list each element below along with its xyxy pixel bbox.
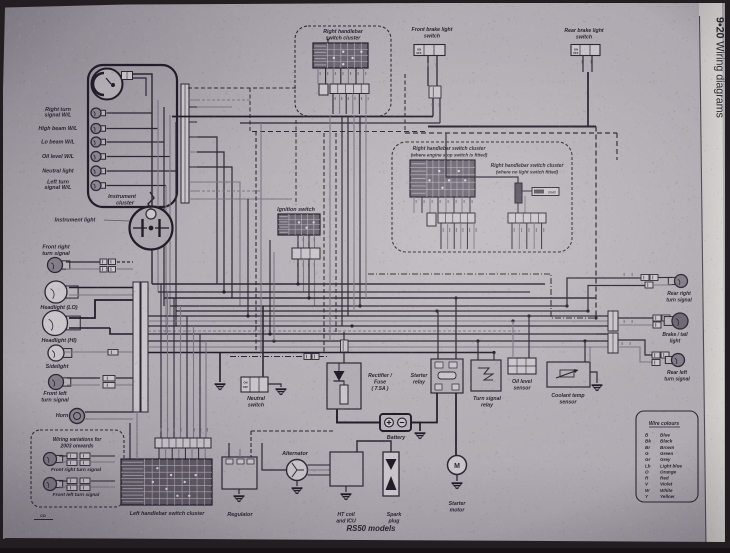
coolant sensor wires: [584, 341, 586, 362]
starter motor: [448, 456, 467, 475]
horn: [70, 409, 85, 424]
cluster stubs below connector: [332, 94, 334, 115]
alternator wires: [308, 464, 331, 466]
wire sidelight: [65, 351, 133, 353]
cluster connector: [319, 84, 328, 95]
rear brake switch wires: [582, 56, 584, 73]
spark plug: [383, 452, 399, 496]
wire - top bus to front brake switch: [172, 116, 433, 118]
dashed drop below cluster box: [295, 120, 297, 205]
neutral switch: [241, 377, 268, 392]
turn signal relay wires: [477, 341, 479, 360]
oil level sensor wires: [512, 321, 514, 358]
variations: front right turn signal bulb: [56, 455, 63, 462]
wire code ticks - rear brake: [582, 60, 583, 64]
left cluster stubs: [158, 448, 160, 459]
starter relay wires: [437, 311, 439, 359]
wire - dashed bus upper: [188, 87, 296, 89]
instrument light circle: [130, 207, 173, 250]
alternator ground: [296, 481, 298, 487]
warning light bulb: Left turn signal W/L: [100, 183, 106, 189]
battery ground: [415, 432, 426, 434]
wire - rear brake down the frame: [616, 133, 618, 160]
connector bar (upper): [181, 84, 189, 203]
ignition switch stubs: [297, 235, 299, 248]
page header text: 9-20 Wiring diagrams: [714, 17, 726, 118]
rectifier / fuse: [327, 363, 361, 409]
front brake switch wires: [427, 56, 429, 87]
lighting patches: [240, 30, 730, 410]
instrument light internal symbol: [141, 219, 143, 237]
wire horn: [85, 411, 133, 413]
wire headlight LO: [69, 287, 133, 289]
warning light bulb: Right turn signal W/L: [100, 110, 106, 116]
turn signal relay: [471, 360, 501, 391]
main harness horizontal rows: [152, 283, 545, 285]
HT coil and ICU: [330, 452, 363, 486]
variant B connector: [508, 213, 546, 223]
variant A stubs: [413, 197, 415, 213]
starter motor ground: [456, 475, 458, 482]
connector on harness feed: [304, 354, 311, 360]
battery wires: [337, 409, 380, 423]
wire HT coil to spark plug: [357, 441, 391, 452]
wire colours box: [636, 411, 698, 502]
wire code ticks - top cluster: [335, 97, 336, 100]
variant cluster B switch: [515, 183, 522, 203]
regulator wires: [228, 443, 230, 457]
dashed drop from top bus: [249, 88, 251, 131]
oil level sensor: [508, 358, 536, 374]
regulator ground: [238, 489, 240, 494]
wire code ticks - rear lamps: [624, 273, 625, 276]
ignition connector: [292, 248, 320, 259]
rear left turn signal: [618, 340, 652, 355]
ignition stubs below: [297, 259, 299, 284]
page margin rule line: [700, 16, 707, 548]
wire headlight HI: [69, 300, 133, 318]
warning light bulb: Lo beam W/L: [100, 139, 106, 145]
wiring variations box: [31, 430, 124, 507]
right handlebar switch cluster box (dashed): [295, 26, 391, 116]
heavy feed wire: [262, 306, 264, 379]
wire bundle - warning lights to harness: [107, 112, 153, 114]
wire starter relay to starter motor: [455, 393, 457, 455]
instrument cluster outline: [88, 65, 177, 207]
wire code ticks - front brake: [428, 63, 429, 67]
wire stubs right of connector bar: [189, 99, 197, 101]
wire code ticks - ignition: [297, 238, 298, 242]
wire neutral to ground: [219, 353, 221, 383]
variant B stubs below: [511, 223, 513, 249]
vertical bundle below top cluster: [323, 133, 325, 353]
left cluster side wires: [129, 423, 131, 459]
harness steps center-left: [247, 199, 249, 316]
coolant temp sensor: [547, 362, 590, 387]
wire code ticks - left cluster bundle: [161, 428, 162, 432]
headlight (HI) bulb: [67, 316, 81, 330]
battery: [380, 414, 411, 431]
rear harness connector blocks: [608, 311, 618, 331]
wire front left turn signal: [67, 377, 100, 379]
wire + connectors front right turn signal: [66, 261, 100, 263]
wire to rear right turn signal: [567, 278, 641, 306]
left handlebar switch cluster table: [121, 459, 212, 505]
connector bar (lower): [133, 282, 140, 412]
variant A connector: [427, 213, 436, 226]
rear right turn signal: [641, 275, 649, 281]
warning light bulb: Neutral light: [100, 168, 106, 174]
warning light bulb: Oil level W/L: [100, 154, 106, 160]
vertical bundle to left handlebar cluster: [160, 284, 162, 438]
sidelight bulb: [63, 349, 72, 358]
variant A stubs below: [440, 223, 442, 249]
left handlebar cluster connector bar: [155, 438, 211, 448]
variations: front left turn signal bulb: [56, 480, 63, 487]
brake light bus: [428, 126, 596, 128]
wire code ticks - variant B: [514, 228, 515, 232]
cluster wire stubs to connector: [317, 68, 319, 84]
right handlebar switch table: [313, 43, 368, 68]
instrument light bulb: [146, 209, 156, 219]
wire - harness drop near ignition: [260, 123, 262, 353]
upper right harness dash-dot loop: [368, 274, 596, 318]
rectifier wires: [343, 332, 345, 363]
coolant sensor ground: [592, 384, 603, 386]
page right margin strip: [699, 3, 725, 548]
headlight (LO) bulb: [66, 286, 78, 298]
harness junction dots: [296, 282, 299, 285]
front left turn signal bulb: [63, 378, 71, 386]
variant B stubs: [517, 203, 519, 213]
speedometer: [92, 69, 123, 100]
speedometer connector: [122, 72, 133, 80]
brake / tail light: [618, 317, 653, 319]
corner shading: [0, 0, 730, 110]
ignition switch table: [278, 214, 320, 235]
warning light bulb: High beam W/L: [100, 126, 106, 132]
HT coil ground: [345, 486, 347, 492]
wire code ticks - ignition lower: [297, 263, 298, 267]
wire rows from harness going right: [197, 99, 250, 101]
wire - speedo to harness: [133, 74, 153, 87]
regulator: [222, 457, 257, 489]
variant cluster A table: [410, 160, 475, 197]
wire code ticks - variant A: [416, 200, 417, 203]
variant cluster box (dashed): [392, 142, 572, 252]
wires into rear connectors: [596, 333, 608, 335]
front right turn signal bulb: [62, 261, 70, 269]
ground near neutral switch: [276, 388, 287, 390]
